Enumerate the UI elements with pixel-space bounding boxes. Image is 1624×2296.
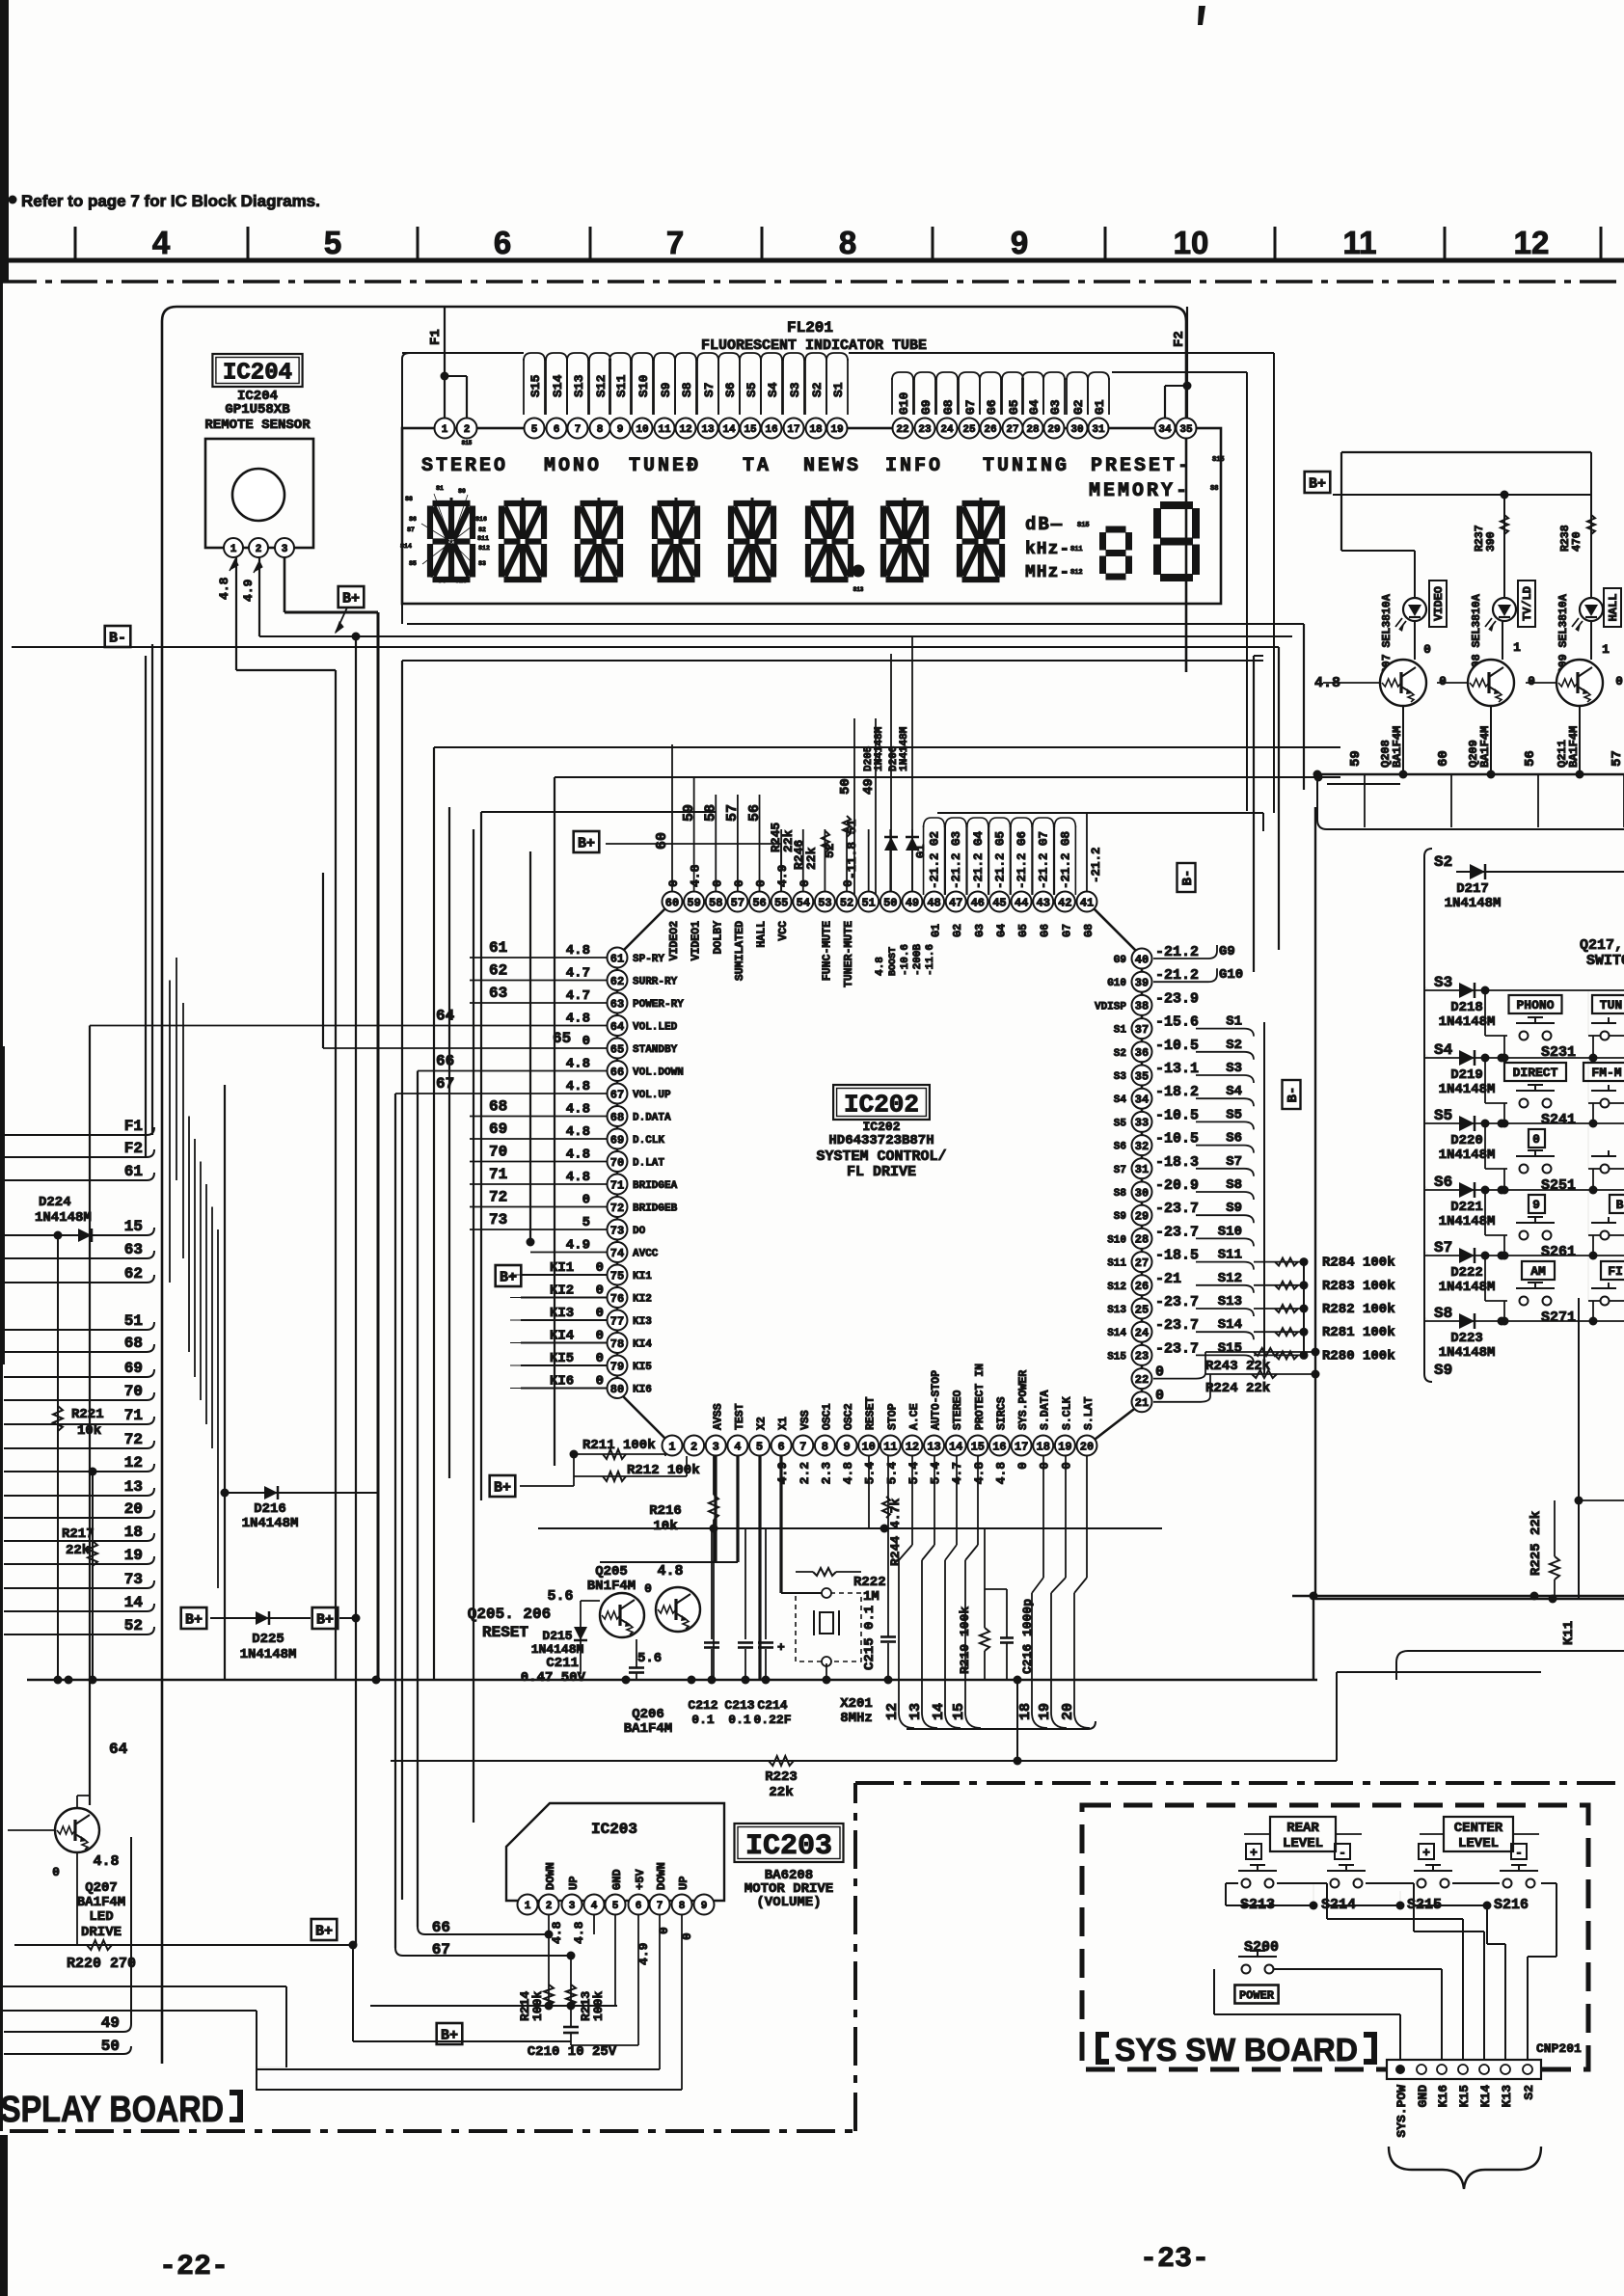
svg-text:51: 51 <box>124 1312 143 1330</box>
svg-text:10: 10 <box>636 424 648 436</box>
svg-text:STEREO: STEREO <box>421 455 508 477</box>
svg-text:59: 59 <box>687 896 700 909</box>
svg-text:VIDEO2: VIDEO2 <box>668 921 681 961</box>
svg-text:STANDBY: STANDBY <box>633 1044 678 1056</box>
svg-text:43: 43 <box>1037 896 1050 909</box>
svg-text:-21.2 G8: -21.2 G8 <box>1059 831 1072 889</box>
svg-text:4.8: 4.8 <box>841 1462 855 1485</box>
svg-text:-10.5: -10.5 <box>1155 1131 1199 1148</box>
svg-text:S4: S4 <box>1226 1084 1242 1099</box>
svg-text:50: 50 <box>838 778 853 795</box>
svg-text:G9: G9 <box>1219 944 1235 959</box>
svg-text:1: 1 <box>230 544 237 555</box>
svg-text:KI3: KI3 <box>633 1316 652 1328</box>
svg-text:BA1F4M: BA1F4M <box>624 1721 672 1737</box>
svg-text:+: + <box>1422 1846 1430 1860</box>
svg-text:G6: G6 <box>1040 924 1052 937</box>
svg-text:8: 8 <box>679 1901 686 1912</box>
svg-text:IC202: IC202 <box>862 1120 900 1134</box>
svg-text:29: 29 <box>1047 424 1060 436</box>
svg-text:12: 12 <box>1514 225 1550 260</box>
svg-text:4.8: 4.8 <box>689 864 703 887</box>
svg-text:BRIDGEB: BRIDGEB <box>633 1203 678 1215</box>
svg-text:C215 0.1: C215 0.1 <box>862 1606 878 1670</box>
svg-text:4.8: 4.8 <box>566 1012 590 1027</box>
svg-text:S15: S15 <box>1212 456 1225 464</box>
svg-text:S14: S14 <box>551 374 565 397</box>
svg-text:S1: S1 <box>1226 1014 1242 1030</box>
svg-text:INFO: INFO <box>885 455 943 477</box>
svg-text:72: 72 <box>124 1431 143 1448</box>
svg-text:R216: R216 <box>649 1503 682 1519</box>
svg-text:-23.7: -23.7 <box>1155 1201 1199 1217</box>
svg-text:K16: K16 <box>1436 2085 1450 2108</box>
svg-text:D.CLK: D.CLK <box>633 1135 664 1147</box>
svg-text:4.9: 4.9 <box>241 579 256 602</box>
svg-text:4.8: 4.8 <box>875 957 886 976</box>
svg-text:HALL: HALL <box>1607 594 1620 622</box>
svg-text:2: 2 <box>690 1440 697 1453</box>
svg-text:12: 12 <box>906 1440 919 1453</box>
svg-text:VOL.DOWN: VOL.DOWN <box>633 1067 684 1079</box>
svg-text:12: 12 <box>679 424 691 436</box>
svg-text:MONO: MONO <box>544 455 602 477</box>
svg-text:KI4: KI4 <box>633 1339 652 1351</box>
svg-text:14: 14 <box>931 1703 947 1720</box>
svg-text:2: 2 <box>546 1901 553 1912</box>
svg-text:BOOST: BOOST <box>888 947 899 976</box>
svg-text:65: 65 <box>553 1030 571 1047</box>
svg-text:-21.2 G7: -21.2 G7 <box>1038 831 1051 889</box>
svg-text:5: 5 <box>756 1440 763 1453</box>
svg-text:0: 0 <box>1423 642 1431 657</box>
svg-text:1N4148M: 1N4148M <box>35 1210 92 1226</box>
svg-text:FM-M: FM-M <box>1591 1066 1621 1080</box>
svg-text:58: 58 <box>709 896 722 909</box>
svg-text:58: 58 <box>703 804 719 822</box>
svg-text:-10.6: -10.6 <box>900 944 911 976</box>
svg-text:69: 69 <box>489 1121 507 1138</box>
svg-text:22: 22 <box>896 424 908 436</box>
svg-text:20: 20 <box>1060 1703 1076 1720</box>
svg-text:+: + <box>1250 1846 1258 1860</box>
svg-text:R283 100k: R283 100k <box>1322 1279 1395 1294</box>
svg-text:S8: S8 <box>1434 1305 1452 1322</box>
svg-text:4: 4 <box>591 1901 598 1912</box>
svg-text:18: 18 <box>1017 1703 1034 1720</box>
svg-text:28: 28 <box>1026 424 1040 436</box>
svg-text:S7: S7 <box>1434 1239 1452 1256</box>
svg-text:21: 21 <box>1135 1396 1149 1410</box>
svg-text:27: 27 <box>1006 424 1018 436</box>
svg-text:IC202: IC202 <box>844 1090 919 1119</box>
svg-text:B+: B+ <box>578 835 595 851</box>
svg-text:24: 24 <box>940 424 954 436</box>
svg-text:1N4148M: 1N4148M <box>899 726 910 771</box>
svg-text:VDISP: VDISP <box>1095 1001 1126 1013</box>
svg-text:D222: D222 <box>1450 1265 1483 1281</box>
svg-text:S13: S13 <box>455 578 467 584</box>
svg-text:S241: S241 <box>1541 1112 1576 1128</box>
svg-text:BA1F4M: BA1F4M <box>77 1895 125 1910</box>
svg-text:BRIDGEA: BRIDGEA <box>633 1180 678 1192</box>
svg-text:S251: S251 <box>1541 1177 1576 1194</box>
svg-text:0.1: 0.1 <box>728 1713 751 1727</box>
svg-text:54: 54 <box>797 896 810 909</box>
svg-text:39: 39 <box>1135 977 1149 990</box>
svg-text:KI2: KI2 <box>550 1283 574 1299</box>
svg-text:76: 76 <box>610 1292 624 1306</box>
svg-text:RESET: RESET <box>482 1624 528 1641</box>
svg-text:61: 61 <box>610 952 624 965</box>
svg-text:1: 1 <box>668 1440 675 1453</box>
svg-text:14: 14 <box>949 1440 962 1453</box>
svg-text:18: 18 <box>809 424 823 436</box>
svg-text:S6: S6 <box>1434 1174 1452 1191</box>
svg-text:13: 13 <box>927 1440 940 1453</box>
svg-text:GND: GND <box>1416 2085 1430 2108</box>
svg-text:74: 74 <box>610 1247 624 1260</box>
svg-text:4.8: 4.8 <box>566 1102 590 1118</box>
svg-text:F2: F2 <box>1172 331 1187 347</box>
svg-text:S11: S11 <box>477 535 489 542</box>
svg-text:S261: S261 <box>1541 1244 1576 1260</box>
svg-text:B-: B- <box>109 630 126 646</box>
svg-text:AVCC: AVCC <box>633 1249 659 1260</box>
svg-text:10k: 10k <box>653 1519 677 1534</box>
svg-text:S4: S4 <box>438 578 446 584</box>
svg-text:2.3: 2.3 <box>819 1462 833 1485</box>
svg-text:R244 4.7k: R244 4.7k <box>888 1499 903 1566</box>
svg-text:-21.2 G4: -21.2 G4 <box>972 830 986 889</box>
svg-text:1N4148M: 1N4148M <box>1439 1214 1496 1229</box>
svg-text:D216: D216 <box>254 1501 286 1517</box>
svg-text:G4: G4 <box>995 924 1008 937</box>
svg-text:62: 62 <box>124 1265 143 1283</box>
svg-text:5: 5 <box>582 1215 590 1230</box>
svg-text:S9: S9 <box>1226 1201 1242 1216</box>
svg-text:68: 68 <box>124 1335 143 1352</box>
svg-text:FI: FI <box>1608 1264 1623 1279</box>
svg-text:30: 30 <box>1135 1186 1149 1200</box>
svg-text:FLUORESCENT INDICATOR TUBE: FLUORESCENT INDICATOR TUBE <box>701 338 927 354</box>
svg-text:S11: S11 <box>614 374 629 397</box>
svg-text:10: 10 <box>861 1440 875 1453</box>
svg-text:B+: B+ <box>185 1611 203 1628</box>
svg-text:-21: -21 <box>1155 1271 1181 1287</box>
svg-text:G7: G7 <box>963 399 978 415</box>
svg-text:S8: S8 <box>680 382 694 397</box>
svg-text:3: 3 <box>282 544 288 555</box>
svg-text:STEREO: STEREO <box>952 1390 964 1430</box>
svg-text:29: 29 <box>1135 1210 1149 1224</box>
svg-text:19: 19 <box>830 424 843 436</box>
svg-text:48: 48 <box>927 896 940 909</box>
svg-text:6: 6 <box>554 424 560 436</box>
svg-text:5.4: 5.4 <box>863 1462 878 1485</box>
svg-text:60: 60 <box>654 832 670 850</box>
svg-text:D217: D217 <box>1456 881 1489 897</box>
svg-text:0: 0 <box>1528 674 1535 689</box>
svg-text:9: 9 <box>701 1901 708 1912</box>
svg-text:S13: S13 <box>1218 1294 1242 1310</box>
svg-text:64: 64 <box>109 1741 128 1758</box>
svg-text:S5: S5 <box>409 560 417 567</box>
svg-text:18: 18 <box>1037 1440 1050 1453</box>
svg-text:S6: S6 <box>723 382 738 397</box>
svg-text:0: 0 <box>1439 674 1447 689</box>
svg-text:G10: G10 <box>897 392 911 415</box>
svg-text:A.CE: A.CE <box>908 1403 921 1430</box>
svg-text:16: 16 <box>992 1440 1006 1453</box>
svg-text:IC204: IC204 <box>223 361 292 387</box>
svg-text:G8: G8 <box>1083 924 1096 937</box>
svg-text:S3: S3 <box>1226 1061 1242 1076</box>
svg-text:LEVEL: LEVEL <box>1458 1836 1499 1851</box>
svg-text:REMOTE SENSOR: REMOTE SENSOR <box>204 418 311 433</box>
svg-text:KI5: KI5 <box>550 1351 574 1366</box>
svg-text:-21.2: -21.2 <box>1090 847 1103 883</box>
svg-text:63: 63 <box>489 985 507 1002</box>
svg-text:kHz-: kHz- <box>1025 540 1070 559</box>
svg-text:S4: S4 <box>1434 1041 1453 1059</box>
svg-text:G1: G1 <box>1093 399 1107 415</box>
svg-text:R225 22k: R225 22k <box>1529 1511 1544 1576</box>
svg-text:0: 0 <box>582 1034 590 1049</box>
svg-text:44: 44 <box>1015 896 1028 909</box>
svg-text:G7: G7 <box>1061 924 1073 937</box>
svg-text:F1: F1 <box>124 1118 143 1135</box>
svg-text:+: + <box>777 1640 785 1655</box>
svg-text:4.8: 4.8 <box>566 1079 590 1094</box>
svg-text:-22-: -22- <box>159 2251 229 2283</box>
svg-text:0: 0 <box>1015 1462 1030 1470</box>
svg-text:67: 67 <box>436 1075 454 1093</box>
svg-text:63: 63 <box>610 997 624 1011</box>
svg-text:S4: S4 <box>766 382 780 397</box>
svg-text:S2: S2 <box>1114 1048 1126 1060</box>
svg-text:UP: UP <box>677 1877 690 1890</box>
svg-text:4.9: 4.9 <box>566 1238 590 1254</box>
svg-text:F2: F2 <box>124 1140 143 1157</box>
svg-text:0: 0 <box>798 879 812 887</box>
svg-text:G1: G1 <box>931 924 943 937</box>
svg-text:50: 50 <box>883 896 897 909</box>
svg-text:5.6: 5.6 <box>547 1588 573 1605</box>
svg-text:62: 62 <box>610 975 624 988</box>
svg-text:D.LAT: D.LAT <box>633 1158 664 1170</box>
svg-text:14: 14 <box>722 424 736 436</box>
svg-text:20: 20 <box>1080 1440 1094 1453</box>
svg-text:S1: S1 <box>831 382 846 397</box>
svg-text:SYSTEM CONTROL/: SYSTEM CONTROL/ <box>816 1148 946 1165</box>
svg-text:SUMILATED: SUMILATED <box>734 921 746 981</box>
svg-text:17: 17 <box>1015 1440 1028 1453</box>
svg-text:S10: S10 <box>1107 1234 1126 1246</box>
svg-text:KI5: KI5 <box>633 1362 652 1373</box>
svg-text:S200: S200 <box>1244 1939 1279 1956</box>
svg-text:X1: X1 <box>777 1417 790 1430</box>
svg-text:5.6: 5.6 <box>637 1651 662 1666</box>
svg-text:57: 57 <box>724 804 741 822</box>
svg-text:-: - <box>1339 1846 1346 1860</box>
svg-text:G6: G6 <box>985 399 999 415</box>
svg-text:0: 0 <box>732 879 746 887</box>
svg-text:64: 64 <box>610 1020 624 1034</box>
svg-text:STOP: STOP <box>886 1403 899 1430</box>
svg-text:S15: S15 <box>528 374 543 397</box>
svg-text:10k: 10k <box>77 1423 101 1439</box>
svg-text:D215: D215 <box>542 1629 572 1643</box>
svg-text:S12: S12 <box>1218 1271 1242 1286</box>
svg-text:0: 0 <box>596 1374 604 1390</box>
svg-text:R211 100k: R211 100k <box>582 1438 656 1453</box>
svg-text:TUNEĐ: TUNEĐ <box>629 455 701 477</box>
svg-text:17: 17 <box>787 424 799 436</box>
svg-text:R284 100k: R284 100k <box>1322 1256 1395 1271</box>
svg-text:2: 2 <box>464 424 471 436</box>
svg-text:K13: K13 <box>1500 2085 1514 2108</box>
svg-text:0: 0 <box>644 1581 652 1596</box>
svg-text:S15: S15 <box>462 440 473 446</box>
svg-text:-18.2: -18.2 <box>1155 1084 1199 1100</box>
svg-text:71: 71 <box>610 1178 624 1192</box>
svg-text:23: 23 <box>918 424 932 436</box>
svg-text:1N4148M: 1N4148M <box>242 1516 299 1531</box>
svg-text:-23.7: -23.7 <box>1155 1224 1199 1240</box>
svg-text:S6: S6 <box>409 516 417 523</box>
svg-text:RESET: RESET <box>865 1396 878 1430</box>
svg-text:5.4: 5.4 <box>884 1462 899 1485</box>
svg-text:4.7: 4.7 <box>566 966 590 982</box>
svg-text:-18.3: -18.3 <box>1155 1154 1199 1171</box>
svg-text:42: 42 <box>1058 896 1071 909</box>
svg-text:KI2: KI2 <box>633 1294 652 1306</box>
svg-text:dB—: dB— <box>1025 514 1064 535</box>
svg-text:4.8: 4.8 <box>217 577 231 600</box>
svg-text:S.DATA: S.DATA <box>1040 1390 1052 1430</box>
svg-text:S15: S15 <box>1077 522 1090 529</box>
svg-text:0.1: 0.1 <box>691 1713 715 1727</box>
svg-text:66: 66 <box>436 1053 454 1070</box>
svg-text:-200B: -200B <box>912 944 924 976</box>
svg-text:(VOLUME): (VOLUME) <box>756 1895 821 1910</box>
svg-text:S13: S13 <box>1107 1305 1126 1316</box>
svg-text:R224 22k: R224 22k <box>1205 1381 1270 1396</box>
svg-text:4: 4 <box>152 225 171 260</box>
svg-text:G4: G4 <box>1027 399 1042 415</box>
svg-text:-18.5: -18.5 <box>1155 1248 1199 1264</box>
svg-text:0: 0 <box>582 1193 590 1208</box>
svg-text:LEVEL: LEVEL <box>1283 1836 1323 1851</box>
svg-text:DOLBY: DOLBY <box>712 921 724 955</box>
svg-text:DOWN: DOWN <box>544 1862 557 1890</box>
svg-text:4.8: 4.8 <box>572 1921 586 1944</box>
svg-text:-23.7: -23.7 <box>1155 1294 1199 1310</box>
svg-text:46: 46 <box>971 896 985 909</box>
svg-text:35: 35 <box>1135 1069 1149 1083</box>
svg-text:S12: S12 <box>1107 1282 1126 1293</box>
svg-text:REAR: REAR <box>1286 1821 1319 1836</box>
svg-text:S1: S1 <box>1114 1025 1127 1037</box>
svg-text:4.8: 4.8 <box>93 1853 119 1870</box>
svg-text:4.8: 4.8 <box>657 1563 683 1580</box>
svg-text:S7: S7 <box>407 527 415 533</box>
svg-text:57: 57 <box>731 896 744 909</box>
svg-text:5: 5 <box>612 1901 619 1912</box>
svg-text:SPLAY BOARD: SPLAY BOARD <box>0 2090 224 2130</box>
svg-text:69: 69 <box>124 1360 143 1377</box>
svg-text:1: 1 <box>525 1901 531 1912</box>
svg-text:POWER: POWER <box>1239 1988 1275 2002</box>
svg-text:S8: S8 <box>1114 1188 1127 1200</box>
svg-text:R221: R221 <box>71 1407 104 1422</box>
svg-text:13: 13 <box>907 1703 924 1720</box>
svg-text:15: 15 <box>951 1703 967 1720</box>
svg-text:1N4148M: 1N4148M <box>1439 1082 1496 1097</box>
svg-text:G5: G5 <box>1017 924 1030 937</box>
svg-text:S3: S3 <box>478 560 486 567</box>
svg-text:41: 41 <box>1080 896 1094 909</box>
svg-text:UP: UP <box>567 1877 581 1890</box>
svg-text:S12: S12 <box>594 374 609 397</box>
svg-text:FL201: FL201 <box>787 319 833 337</box>
svg-text:5.4: 5.4 <box>907 1462 921 1485</box>
svg-text:-23.9: -23.9 <box>1155 990 1199 1007</box>
svg-text:49: 49 <box>101 2014 120 2032</box>
svg-text:0: 0 <box>596 1351 604 1366</box>
svg-text:CENTER: CENTER <box>1454 1821 1503 1836</box>
svg-text:K14: K14 <box>1478 2085 1493 2108</box>
svg-text:S7: S7 <box>702 382 717 397</box>
svg-text:G10: G10 <box>1219 967 1243 983</box>
svg-text:1M: 1M <box>863 1589 880 1605</box>
svg-text:13: 13 <box>701 424 715 436</box>
svg-text:37: 37 <box>1135 1023 1149 1037</box>
svg-text:AUTO-STOP: AUTO-STOP <box>931 1370 943 1430</box>
svg-text:1: 1 <box>1513 640 1521 655</box>
svg-text:VSS: VSS <box>799 1410 812 1430</box>
svg-text:S14: S14 <box>400 543 412 550</box>
svg-text:0: 0 <box>841 879 855 887</box>
svg-text:R280 100k: R280 100k <box>1322 1348 1395 1364</box>
svg-text:S2: S2 <box>478 527 486 533</box>
svg-text:S.CLK: S.CLK <box>1061 1396 1073 1430</box>
svg-text:34: 34 <box>1158 424 1172 436</box>
svg-text:4.8: 4.8 <box>566 1057 590 1072</box>
svg-text:S9: S9 <box>1114 1211 1126 1223</box>
svg-text:75: 75 <box>610 1269 624 1283</box>
svg-text:DIRECT: DIRECT <box>1513 1066 1558 1080</box>
svg-text:33: 33 <box>1135 1117 1149 1130</box>
svg-text:68: 68 <box>610 1111 624 1124</box>
svg-text:11: 11 <box>1343 225 1377 260</box>
svg-text:VOL.UP: VOL.UP <box>633 1090 671 1101</box>
svg-text:1N4148M: 1N4148M <box>240 1647 297 1662</box>
svg-text:25: 25 <box>962 424 976 436</box>
svg-text:14: 14 <box>124 1594 144 1611</box>
svg-text:S2: S2 <box>810 382 825 397</box>
svg-text:DRIVE: DRIVE <box>81 1925 122 1940</box>
svg-text:0: 0 <box>710 879 724 887</box>
svg-text:S2: S2 <box>1522 2085 1536 2100</box>
svg-text:G2: G2 <box>1071 399 1086 415</box>
svg-text:S15: S15 <box>1218 1340 1242 1356</box>
svg-text:73: 73 <box>489 1211 507 1229</box>
svg-text:-21.2 G5: -21.2 G5 <box>993 831 1007 889</box>
svg-text:70: 70 <box>610 1156 624 1170</box>
svg-text:-11.6: -11.6 <box>925 944 936 976</box>
